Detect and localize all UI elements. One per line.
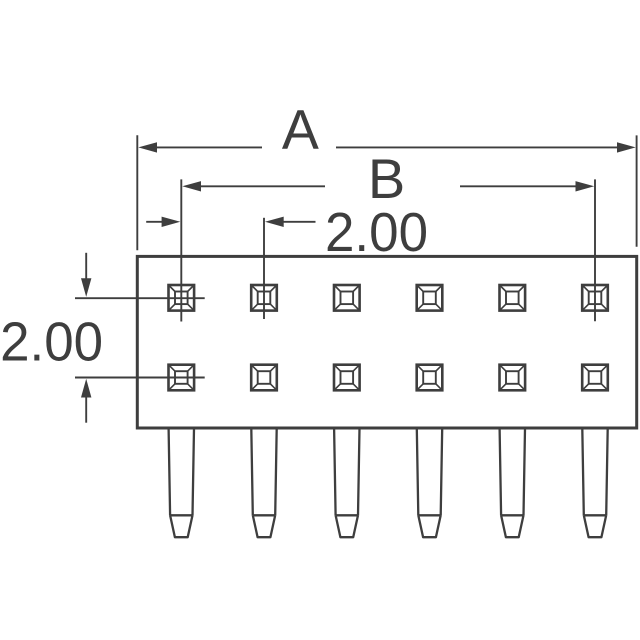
dimension B extension line left (through pad column 1) (180, 179, 182, 321)
dimension B arrowhead right (576, 181, 595, 191)
pin 1 (169, 429, 194, 538)
vertical 2.00 up arrowhead (81, 379, 91, 398)
row 1 center leader line (75, 297, 205, 299)
pad row 2 col 1 (169, 365, 195, 391)
horizontal 2.00 left arrow tail (146, 221, 163, 223)
svg-text:A: A (282, 98, 320, 161)
vertical 2.00 down arrowhead (81, 278, 91, 297)
pad row 2 col 4 (417, 365, 443, 391)
pad row 1 col 6 (582, 285, 608, 311)
horizontal 2.00 right arrow tail (283, 221, 316, 223)
connector body outline (137, 256, 636, 428)
pad row 1 col 4 (417, 285, 443, 311)
dimension A extension line right (636, 135, 638, 246)
pin 3 (334, 429, 359, 538)
dimension B extension line right (through pad column 6) (594, 179, 596, 321)
pad row 1 col 5 (500, 285, 526, 311)
dimension A line right segment (336, 146, 619, 148)
pad row 1 col 2 (251, 285, 277, 311)
pin 2 (251, 429, 276, 538)
svg-text:2.00: 2.00 (0, 310, 103, 372)
horizontal 2.00 left arrowhead (162, 217, 181, 227)
dimension B arrowhead left (182, 181, 201, 191)
pin 6 (582, 429, 607, 538)
dimension A arrowhead left (138, 142, 157, 152)
dimension A extension line left (136, 135, 138, 250)
dimension A arrowhead right (617, 142, 636, 152)
pad row 2 col 3 (334, 365, 360, 391)
svg-text:2.00: 2.00 (325, 201, 428, 263)
pad row 2 col 6 (582, 365, 608, 391)
pad row 2 col 5 (500, 365, 526, 391)
vertical 2.00 down arrow shaft (85, 253, 87, 281)
pin 5 (500, 429, 525, 538)
horizontal 2.00 right arrowhead (265, 217, 284, 227)
pad row 2 col 2 (251, 365, 277, 391)
dimension B line left segment (200, 185, 325, 187)
dimension A line left segment (155, 146, 262, 148)
pad row 1 col 1 (169, 285, 195, 311)
pad row 1 col 3 (334, 285, 360, 311)
row 2 center leader line (75, 377, 205, 379)
pin 4 (417, 429, 442, 538)
horizontal 2.00 pitch extension line (pad column 2) (263, 218, 265, 319)
dimension B line right segment (460, 185, 577, 187)
vertical 2.00 up arrow shaft (85, 397, 87, 423)
